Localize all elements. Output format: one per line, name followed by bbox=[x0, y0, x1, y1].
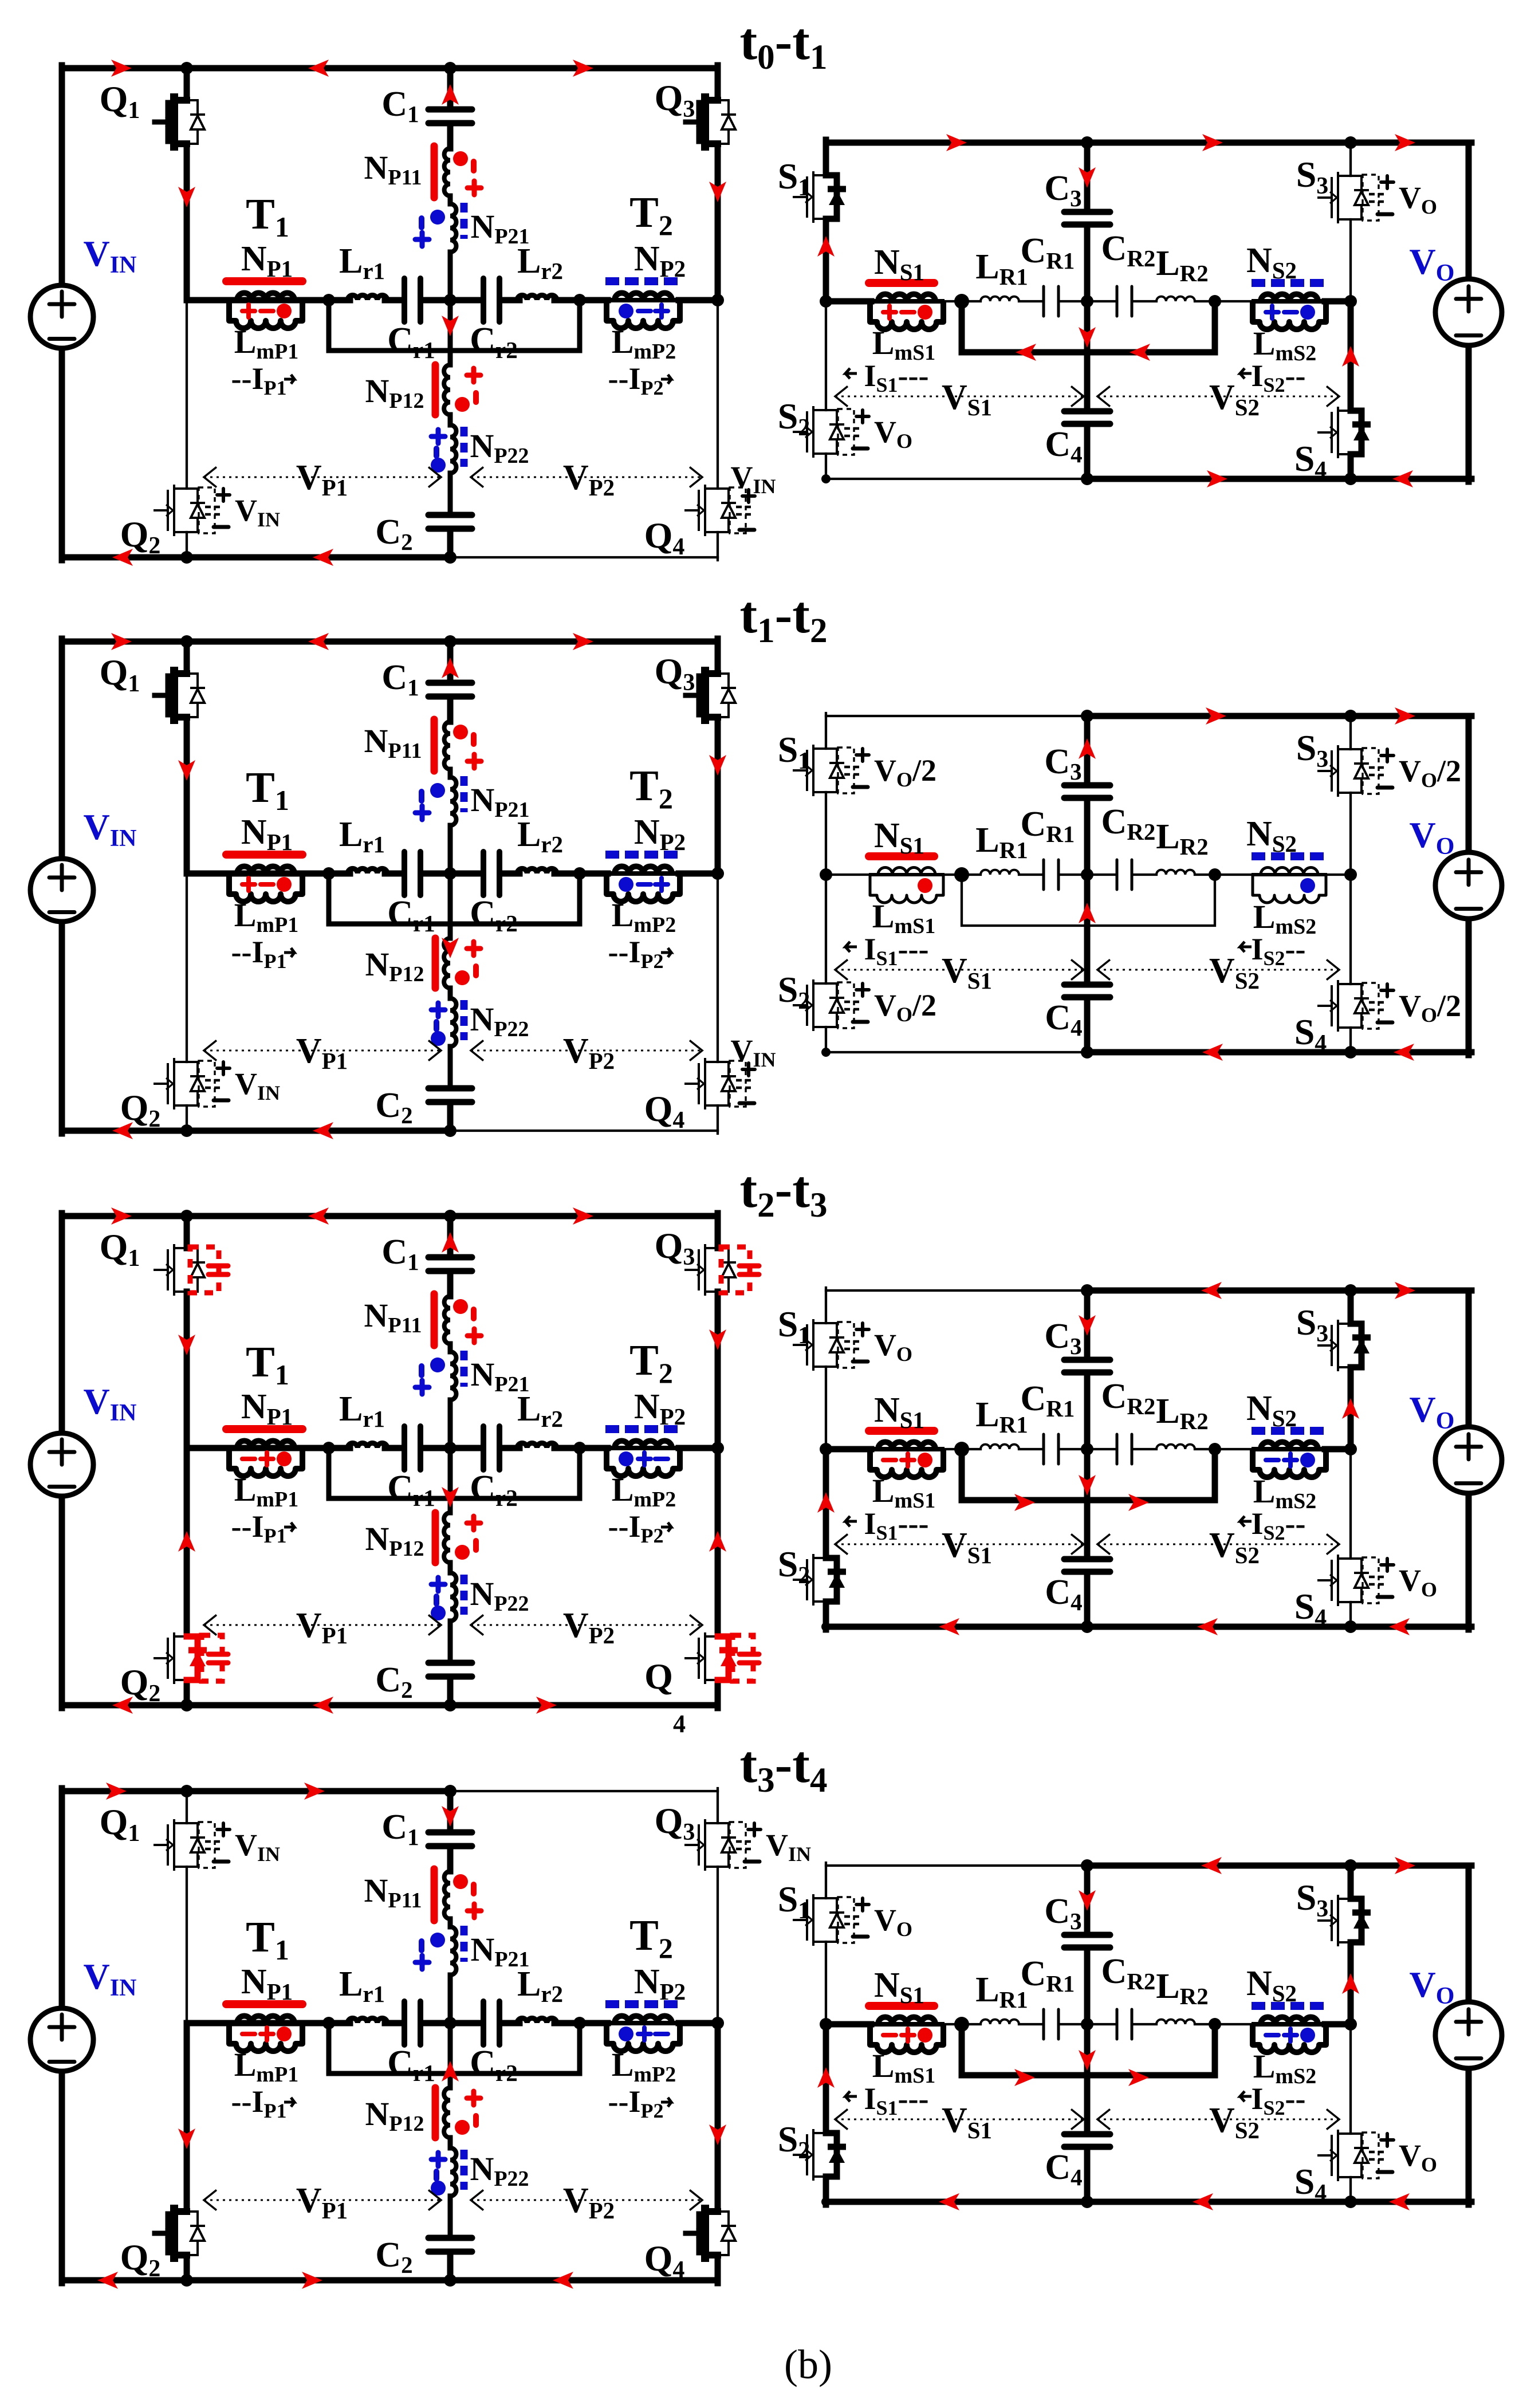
wire S3 branch bbox=[1348, 1290, 1354, 1324]
capacitor C4 bbox=[1064, 985, 1110, 997]
wire secondary bypass branch bbox=[962, 2024, 1215, 2075]
magnetizing inductance LmP2 bbox=[605, 298, 681, 302]
wire mid rail left stub bbox=[826, 874, 871, 876]
marks NP11 bbox=[453, 1874, 468, 1889]
winding NP21 bbox=[450, 777, 457, 825]
wire top rail right bbox=[1087, 140, 1471, 146]
row2 primary circuit bbox=[30, 633, 776, 1139]
node bottom-center junction bbox=[444, 2274, 457, 2287]
measurement VS1 bbox=[835, 969, 1084, 971]
marks NP11 bbox=[453, 1299, 468, 1314]
measurement VP1 bbox=[204, 1624, 441, 1626]
bar NP21 dashed bbox=[461, 776, 468, 812]
measurement VP2 bbox=[471, 1624, 702, 1626]
bar NP21 dashed bbox=[461, 203, 468, 239]
wire Q2 branch bbox=[184, 1448, 190, 1636]
row1 secondary circuit bbox=[778, 134, 1502, 487]
bar NP21 dashed bbox=[461, 1926, 468, 1962]
inductor LR2 bbox=[1156, 2020, 1195, 2024]
wire center column C3 segment bbox=[1084, 1866, 1091, 1932]
marks NP21 bbox=[430, 1933, 445, 1947]
node mid rail center bbox=[444, 2017, 457, 2029]
bar NP2 dashed bbox=[605, 1425, 678, 1433]
node mid rail far right bbox=[711, 2017, 724, 2029]
wire mid rail bbox=[187, 871, 331, 877]
measurement VP1 bbox=[204, 477, 441, 478]
row2 secondary circuit bbox=[778, 707, 1502, 1061]
capacitor Cr2 bbox=[483, 2001, 499, 2045]
row4 primary circuit bbox=[30, 1783, 811, 2289]
wire center column C3 segment bbox=[1084, 716, 1091, 782]
wire S1 branch bbox=[825, 1288, 827, 1323]
capacitor C2 bbox=[428, 1663, 472, 1677]
wire top rail left bbox=[826, 1289, 1087, 1292]
capacitor CR2 bbox=[1117, 286, 1132, 316]
node mid LmS1 right bbox=[954, 867, 969, 882]
inductor Lr2 bbox=[517, 868, 557, 874]
transistor S1 bbox=[813, 1898, 826, 1942]
transistor Q2 bbox=[174, 1636, 187, 1680]
transistor S2 bbox=[813, 2133, 826, 2177]
bar NP2 dashed bbox=[605, 277, 678, 285]
magnetizing inductance LmS1 bbox=[869, 1447, 945, 1451]
wire center column NP12-NP22 segments bbox=[448, 874, 453, 938]
measurement VP1 bbox=[204, 1050, 441, 1052]
source VIN bbox=[30, 2008, 93, 2071]
wire S4 branch bbox=[1349, 2024, 1352, 2134]
capacitor Cr1 bbox=[404, 2001, 420, 2045]
transistor S1 bbox=[813, 749, 826, 792]
marks NP22 bbox=[431, 1003, 445, 1017]
transistor Q3 bbox=[705, 1248, 718, 1292]
marks NP12 bbox=[467, 1516, 481, 1530]
capacitor CR2 bbox=[1117, 860, 1132, 890]
wire mid rail thin middle bbox=[945, 2023, 981, 2025]
node bottom center bbox=[1081, 1620, 1093, 1633]
wire center column C1 segment bbox=[447, 68, 454, 107]
inductor LR1 bbox=[981, 1445, 1019, 1449]
node mid LR2 right bbox=[1209, 2018, 1221, 2031]
bar NP1 bbox=[226, 851, 302, 859]
wire top rail left bbox=[62, 1788, 450, 1795]
bar NS1 bbox=[869, 279, 934, 287]
capacitor C1 bbox=[428, 683, 472, 697]
row4 secondary circuit bbox=[778, 1857, 1502, 2210]
marks NP11 bbox=[453, 725, 468, 739]
wire Q2 branch bbox=[186, 874, 188, 1062]
transistor Q3 bbox=[705, 100, 718, 144]
transistor Q1 bbox=[174, 1248, 187, 1292]
svg-text:Q: Q bbox=[644, 1656, 673, 1697]
node top-left junction bbox=[180, 635, 193, 648]
node bottom center bbox=[1081, 473, 1093, 485]
wire S2 branch bbox=[825, 301, 827, 410]
magnetizing inductance LmP2 bbox=[605, 871, 681, 876]
node bottom S4 bbox=[1344, 1046, 1357, 1059]
wire S2 branch bbox=[825, 875, 827, 983]
wire S2 branch bbox=[823, 1449, 829, 1558]
capacitor C1 bbox=[428, 109, 472, 123]
wire bottom rail right bbox=[450, 556, 718, 558]
transistor S4 bbox=[1338, 2134, 1351, 2177]
transistor Q4 bbox=[705, 1062, 718, 1105]
wire S3 branch bbox=[1348, 1866, 1354, 1899]
wire center column C3 segment bbox=[1084, 143, 1091, 209]
wire Q3 branch bbox=[715, 65, 721, 100]
capacitor Cr1 bbox=[404, 852, 420, 895]
wire top rail right bbox=[1087, 1863, 1471, 1869]
node mid LR2 right bbox=[1209, 1443, 1221, 1455]
bar NS2 dashed bbox=[1252, 2002, 1324, 2010]
inductor Lr1 bbox=[348, 2018, 387, 2023]
inductor LR2 bbox=[1156, 870, 1195, 875]
source VO bbox=[1435, 279, 1502, 345]
transistor S4 bbox=[1338, 1559, 1351, 1602]
wire bottom rail right bbox=[1087, 1624, 1471, 1630]
wire S4 branch bbox=[1349, 1449, 1352, 1559]
measurement VP2 bbox=[471, 477, 702, 478]
node bottom S4 bbox=[1344, 2195, 1357, 2208]
magnetizing inductance LmS2 bbox=[1252, 1447, 1327, 1451]
capacitor CR1 bbox=[1044, 2009, 1058, 2039]
current flow arrows bbox=[1206, 707, 1226, 725]
node top-left junction bbox=[180, 1210, 193, 1222]
capacitor C2 bbox=[428, 1088, 472, 1102]
source VIN bbox=[30, 1433, 93, 1496]
marks NP21 bbox=[430, 783, 445, 798]
transistor Q2 bbox=[174, 489, 187, 532]
wire output right column bbox=[1466, 143, 1472, 278]
wire mid rail bbox=[187, 297, 331, 304]
wire secondary bypass branch bbox=[962, 875, 1215, 926]
winding NP11 bbox=[444, 148, 450, 196]
node bottom-center junction bbox=[444, 551, 457, 564]
capacitor Cr1 bbox=[404, 278, 420, 322]
node mid rail far right bbox=[711, 294, 724, 306]
bar NP22 dashed bbox=[461, 427, 468, 467]
transistor S2 bbox=[813, 983, 826, 1027]
capacitor CR1 bbox=[1044, 1434, 1058, 1464]
node top-left junction bbox=[180, 1785, 193, 1797]
measurement VS1 bbox=[835, 396, 1084, 398]
capacitor C1 bbox=[428, 1832, 472, 1846]
bar NP11 bbox=[431, 719, 438, 771]
wire bottom rail left bbox=[62, 1702, 450, 1709]
label IS1 with arrow bbox=[845, 942, 857, 952]
node mid center bbox=[1081, 2018, 1093, 2031]
wire center column NP12-NP22 segments bbox=[448, 300, 453, 365]
current flow arrows bbox=[1201, 1282, 1222, 1299]
wire bottom rail right bbox=[1087, 1049, 1471, 1056]
current flow arrows bbox=[106, 1783, 127, 1800]
wire Q4 branch bbox=[717, 874, 719, 1062]
bar NP12 bbox=[432, 2088, 439, 2138]
transistor S1 bbox=[813, 1323, 826, 1367]
wire S3 branch bbox=[1349, 716, 1352, 749]
marks NP21 bbox=[430, 1358, 445, 1372]
wire output right column bbox=[1466, 716, 1472, 852]
node mid rail right bypass bbox=[573, 294, 586, 306]
winding NP22 bbox=[450, 998, 457, 1046]
magnetizing inductance LmP1 bbox=[228, 298, 304, 302]
node mid rail right bypass bbox=[573, 2017, 586, 2029]
transistor Q1 bbox=[174, 1823, 187, 1867]
marks NP12 bbox=[467, 2091, 481, 2105]
bar NP11 bbox=[431, 1869, 438, 1921]
node bottom center bbox=[1081, 2195, 1093, 2208]
bar NP22 dashed bbox=[461, 2150, 468, 2190]
node top S3 bbox=[1344, 1859, 1357, 1872]
label IS2 with arrow bbox=[1240, 368, 1252, 379]
wire mid rail thin middle bbox=[945, 874, 981, 876]
winding NP22 bbox=[450, 1573, 457, 1621]
wire center column C1 segment bbox=[447, 1791, 454, 1829]
wire Q4 branch bbox=[715, 2023, 721, 2212]
node bottom-left junction bbox=[180, 1124, 193, 1137]
magnetizing inductance LmS1 bbox=[869, 299, 945, 304]
wire S3 branch bbox=[1349, 143, 1352, 176]
wire Q3 branch bbox=[717, 1788, 719, 1823]
node bottom-left junction bbox=[180, 1699, 193, 1711]
bar NP1 bbox=[226, 277, 302, 285]
node mid rail right bypass bbox=[573, 1442, 586, 1454]
bar NP1 bbox=[226, 2000, 302, 2008]
transistor Q1 bbox=[174, 674, 187, 717]
label IS2 with arrow bbox=[1240, 942, 1252, 952]
capacitor C3 bbox=[1064, 785, 1110, 798]
bar NP12 bbox=[432, 365, 439, 415]
wire bottom rail right bbox=[450, 1702, 718, 1709]
bar NP1 bbox=[226, 1425, 302, 1433]
wire center column NP12-NP22 segments bbox=[448, 2023, 453, 2088]
measurement VS2 bbox=[1097, 969, 1339, 971]
capacitor CR1 bbox=[1044, 286, 1058, 316]
capacitor C4 bbox=[1064, 2134, 1110, 2147]
inductor LR1 bbox=[981, 870, 1019, 875]
wire Q2 branch bbox=[184, 2023, 190, 2212]
capacitor C4 bbox=[1064, 1559, 1110, 1572]
capacitor CR2 bbox=[1117, 1434, 1132, 1464]
node top S3 bbox=[1344, 136, 1357, 149]
wire left column upper bbox=[59, 65, 65, 285]
node top center bbox=[1081, 710, 1093, 722]
magnetizing inductance LmS2 bbox=[1252, 873, 1327, 876]
row3 secondary circuit bbox=[778, 1282, 1502, 1635]
winding NP11 bbox=[444, 722, 450, 769]
inductor Lr1 bbox=[348, 1443, 387, 1448]
node top-center junction bbox=[444, 1785, 457, 1797]
wire resonant bypass branch bbox=[329, 2023, 580, 2073]
wire bottom rail left bbox=[62, 1128, 450, 1134]
node mid S right bbox=[1344, 1443, 1357, 1455]
wire Q3 branch bbox=[715, 1213, 721, 1248]
wire top rail left bbox=[826, 715, 1087, 717]
wire S2 branch bbox=[823, 2024, 829, 2133]
transistor Q4 bbox=[705, 489, 718, 532]
magnetizing inductance LmP1 bbox=[228, 2021, 304, 2025]
bar NP22 dashed bbox=[461, 1000, 468, 1040]
node top center bbox=[1081, 1284, 1093, 1297]
bar NS1 bbox=[869, 852, 934, 860]
wire secondary bypass branch bbox=[962, 1449, 1215, 1500]
wire top rail right bbox=[450, 1790, 718, 1792]
magnetizing inductance LmS1 bbox=[869, 873, 945, 876]
wire top rail right bbox=[450, 65, 718, 72]
node mid LR2 right bbox=[1209, 868, 1221, 881]
node mid LmS1 right bbox=[954, 294, 969, 309]
wire center column C2 segment bbox=[447, 1679, 454, 1705]
wire S1 branch bbox=[825, 713, 827, 749]
inductor LR1 bbox=[981, 2020, 1019, 2024]
wire center column C4 segment bbox=[1084, 2024, 1091, 2131]
wire resonant bypass branch bbox=[329, 1448, 580, 1498]
label IS2 with arrow bbox=[1240, 2091, 1252, 2102]
wire mid rail right stub bbox=[1325, 298, 1351, 305]
transistor S3 bbox=[1338, 1899, 1351, 1942]
inductor LR1 bbox=[981, 297, 1019, 301]
node mid rail left bbox=[322, 2017, 335, 2029]
wire center column C4 segment bbox=[1084, 1449, 1091, 1556]
bar NS1 bbox=[869, 1427, 934, 1435]
wire center column C4 segment bbox=[1084, 875, 1091, 982]
bar NP11 bbox=[431, 1294, 438, 1345]
wire left column lower bbox=[59, 1497, 65, 1708]
wire Q2 branch bbox=[186, 300, 188, 489]
node bottom center bbox=[1081, 1046, 1093, 1059]
transistor Q1 bbox=[174, 100, 187, 144]
measurement VS1 bbox=[835, 1544, 1084, 1545]
wire bottom rail right bbox=[450, 2277, 718, 2284]
wire S4 branch bbox=[1348, 301, 1354, 411]
wire Q1 branch bbox=[186, 1791, 188, 1823]
node mid S right bbox=[1344, 868, 1357, 881]
wire mid rail left stub bbox=[826, 2021, 871, 2028]
wire top rail left bbox=[826, 140, 1087, 146]
wire center column C1 segment bbox=[447, 642, 454, 680]
wire left column lower bbox=[59, 2072, 65, 2283]
wire mid rail right stub bbox=[1325, 874, 1351, 876]
node top-center junction bbox=[444, 62, 457, 74]
node top-center junction bbox=[444, 1210, 457, 1222]
source VO bbox=[1435, 852, 1502, 919]
node mid rail far right bbox=[711, 1442, 724, 1454]
node mid LR2 right bbox=[1209, 295, 1221, 308]
wire output right column bbox=[1466, 1290, 1472, 1426]
current flow arrows bbox=[111, 60, 132, 77]
node bottom-center junction bbox=[444, 1699, 457, 1711]
node mid rail center bbox=[444, 1442, 457, 1454]
wire top rail right bbox=[1087, 713, 1471, 719]
winding NP11 bbox=[444, 1871, 450, 1919]
wire center column NP11-NP21 segments bbox=[448, 196, 453, 204]
wire bottom rail left bbox=[826, 478, 1087, 480]
wire Q4 branch bbox=[717, 300, 719, 489]
wire bottom rail right bbox=[1087, 476, 1471, 482]
wire top rail right bbox=[450, 639, 718, 645]
node top center bbox=[1081, 136, 1093, 149]
wire bottom rail right bbox=[450, 1130, 718, 1132]
wire center column NP11-NP21 segments bbox=[448, 769, 453, 777]
node top S3 bbox=[1344, 710, 1357, 722]
transistor S2 bbox=[813, 410, 826, 454]
transistor S4 bbox=[1338, 411, 1351, 454]
marks NP22 bbox=[431, 2153, 445, 2166]
winding NP22 bbox=[450, 2148, 457, 2196]
wire center column NP11-NP21 segments bbox=[448, 1344, 453, 1352]
wire resonant bypass branch bbox=[329, 874, 580, 924]
node bottom-left junction bbox=[180, 2274, 193, 2287]
transistor S3 bbox=[1338, 1324, 1351, 1367]
node bottom left bbox=[821, 1622, 831, 1631]
wire center column C1 segment bbox=[447, 1216, 454, 1254]
bar NP12 bbox=[432, 938, 439, 988]
node mid center bbox=[1081, 868, 1093, 881]
wire mid rail bbox=[187, 2020, 331, 2027]
transistor S4 bbox=[1338, 984, 1351, 1028]
source VIN bbox=[30, 859, 93, 922]
inductor Lr2 bbox=[517, 1443, 557, 1448]
marks NP22 bbox=[431, 1577, 445, 1591]
node bottom-left junction bbox=[180, 551, 193, 564]
capacitor Cr1 bbox=[404, 1426, 420, 1470]
node mid center bbox=[1081, 1443, 1093, 1455]
capacitor C3 bbox=[1064, 1360, 1110, 1372]
wire secondary bypass branch bbox=[962, 301, 1215, 352]
wire center column C2 segment bbox=[447, 531, 454, 557]
wire top rail left bbox=[62, 639, 450, 645]
capacitor C1 bbox=[428, 1257, 472, 1271]
wire top rail left bbox=[62, 65, 450, 72]
magnetizing inductance LmP1 bbox=[228, 1446, 304, 1450]
bar NS2 dashed bbox=[1252, 852, 1324, 860]
row1 primary circuit bbox=[30, 60, 776, 566]
current flow arrows bbox=[946, 134, 967, 151]
capacitor Cr2 bbox=[483, 1426, 499, 1470]
wire left column upper bbox=[59, 639, 65, 858]
node mid center bbox=[1081, 295, 1093, 308]
bar NP21 dashed bbox=[461, 1351, 468, 1387]
label IS1 with arrow bbox=[845, 368, 857, 379]
wire mid rail thin middle bbox=[945, 1448, 981, 1450]
bar NS1 bbox=[869, 2002, 934, 2010]
wire top rail right bbox=[450, 1213, 718, 1219]
wire top rail left bbox=[62, 1213, 450, 1219]
wire left column upper bbox=[59, 1788, 65, 2008]
wire left column lower bbox=[59, 922, 65, 1134]
winding NP21 bbox=[450, 1352, 457, 1400]
magnetizing inductance LmP2 bbox=[605, 2021, 681, 2025]
marks NP12 bbox=[467, 368, 481, 382]
transistor Q3 bbox=[705, 1823, 718, 1867]
winding NP21 bbox=[450, 204, 457, 252]
node mid rail center bbox=[444, 294, 457, 306]
wire S4 branch bbox=[1349, 875, 1352, 984]
wire center column C3 segment bbox=[1084, 1290, 1091, 1357]
transistor S3 bbox=[1338, 749, 1351, 793]
marks NP21 bbox=[430, 210, 445, 225]
node mid left bbox=[820, 2018, 832, 2031]
winding NP21 bbox=[450, 1927, 457, 1975]
transistor Q4 bbox=[705, 2212, 718, 2255]
wire resonant bypass branch bbox=[329, 300, 580, 351]
marks NP22 bbox=[431, 430, 445, 443]
node mid left bbox=[820, 295, 832, 308]
inductor Lr1 bbox=[348, 868, 387, 874]
marks NP11 bbox=[453, 151, 468, 166]
transistor S2 bbox=[813, 1558, 826, 1602]
capacitor C2 bbox=[428, 2238, 472, 2252]
measurement VS2 bbox=[1097, 396, 1339, 398]
